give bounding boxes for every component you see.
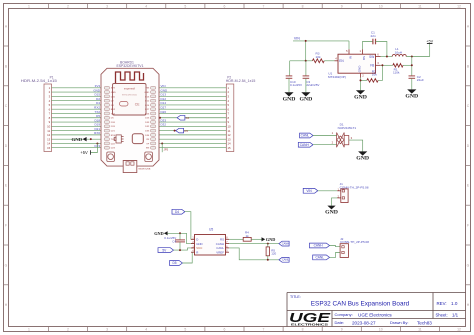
esp32 chip on board [132,134,143,144]
svg-text:C: C [5,104,8,108]
svg-text:CANL: CANL [315,256,324,260]
wire P1 pin 3 to board [52,95,102,97]
svg-text:11: 11 [418,328,422,332]
svg-text:ESP32DEVKITV1: ESP32DEVKITV1 [117,64,144,68]
junction R2/GND [360,79,362,81]
svg-text:1.0: 1.0 [451,301,458,306]
wire R4 to ground [251,238,261,240]
svg-text:R: R [196,250,198,254]
svg-text:VIN: VIN [294,37,300,41]
svg-text:5: 5 [184,5,186,9]
wire board to P2 pin 9 [159,121,226,123]
stub tap on VP row [161,142,163,144]
svg-text:Company:: Company: [335,312,353,317]
svg-text:A: A [5,25,8,29]
wire board to P2 pin 13 [159,138,226,140]
wire board to P2 pin 15 [159,147,226,149]
ground under C3 [301,92,310,96]
wire RS row to R4 [229,238,243,240]
svg-text:5: 5 [184,328,186,332]
svg-text:GND: GND [72,137,83,142]
wire VIN rail [293,40,349,42]
svg-text:FB: FB [370,64,374,68]
svg-text:H: H [5,303,8,307]
svg-text:GND: GND [405,95,418,100]
connector J1 CONN-TH_2P-P5.08 [337,182,368,203]
svg-text:D5: D5 [184,129,188,133]
net flag D5 on wire row 11 [174,128,189,133]
wire P1 pin 8 to board [52,117,102,119]
wire output node down to C2 [411,57,413,76]
wire R3 to EN pin [324,60,334,62]
net flag VIN [303,188,318,193]
wire C10 branch [289,61,291,76]
wire P1 pin 5 to board [52,104,102,106]
wire P1 pin 7 to board [52,112,102,114]
svg-text:GND: GND [356,157,369,162]
capacitor C10 0.1u/25V [286,76,302,92]
svg-text:10uH: 10uH [395,51,402,55]
svg-text:6: 6 [377,52,379,56]
svg-text:VREF: VREF [216,250,224,254]
wire board to P2 pin 5 [159,104,226,106]
svg-text:MICROUSB: MICROUSB [139,169,151,171]
en button [145,152,153,162]
wire J1 pin2 to ground [332,198,338,206]
svg-text:B: B [5,64,8,68]
svg-text:10: 10 [379,5,383,9]
svg-text:MT2492(OP): MT2492(OP) [328,75,346,79]
svg-text:1k: 1k [246,234,250,238]
net flag D4 (to U5) [172,209,185,214]
svg-text:ESP32-WROOM-32: ESP32-WROOM-32 [122,95,137,97]
svg-text:G: G [5,263,8,267]
svg-text:F: F [467,224,469,228]
net flag D5 (to U5) [170,261,183,266]
wire board to P2 pin 2 [159,91,226,93]
svg-text:GND: GND [283,97,296,102]
svg-text:2: 2 [332,140,334,144]
svg-text:6: 6 [223,328,225,332]
connector J2 CONN-TH_2P-P5.08 [340,237,369,258]
wire rail branch down to EN row [305,41,307,61]
junction +5V node [411,56,413,58]
svg-text:GND: GND [300,97,313,102]
svg-text:0.1u/25V: 0.1u/25V [290,83,302,87]
net flag CANL (at U5) [279,257,289,262]
wire board to P2 pin 4 [159,100,226,102]
svg-text:CE: CE [135,103,140,107]
wire GND to U5 [168,233,195,243]
RF shield [113,84,147,116]
svg-text:SW: SW [369,55,374,59]
svg-text:D4: D4 [186,116,190,120]
wire P1 pin 12 to board [52,134,102,136]
wire board to P2 pin 11 [159,130,226,132]
svg-text:REV:: REV: [437,301,447,306]
wire P1 pin 4 to board [52,100,102,102]
svg-text:15: 15 [228,146,232,150]
junction on VIN rail [305,40,307,42]
svg-text:B: B [467,64,470,68]
svg-text:ELECTRONICS: ELECTRONICS [291,323,328,327]
ground flag right of R4 [262,237,276,242]
svg-text:EN: EN [146,148,149,150]
net flag 5V [158,248,174,253]
svg-text:GND: GND [354,95,367,100]
svg-text:D: D [467,144,470,148]
svg-text:9: 9 [341,5,343,9]
svg-text:VIN: VIN [306,189,312,193]
svg-text:espressif: espressif [124,86,135,90]
wire P1 pin 6 to board [52,108,102,110]
wire U1 GND pin down [360,78,362,91]
svg-text:VN: VN [146,139,149,141]
svg-text:22n: 22n [371,34,376,38]
svg-text:E: E [5,184,8,188]
svg-text:12: 12 [457,328,461,332]
antenna meander [116,72,144,84]
wire SW row [381,56,393,58]
net flag CANL [300,133,313,138]
wire P1 pin 1 to board [52,87,102,89]
usb-uart chip on board [114,135,123,143]
svg-text:8: 8 [302,328,304,332]
svg-text:D26: D26 [161,110,167,114]
svg-text:2: 2 [362,74,364,78]
ground under U1 [356,90,365,94]
svg-text:IN: IN [349,56,353,59]
connector P1 HDR-M-2.54_1x15 (left header) [21,76,57,152]
svg-text:P1: P1 [50,76,54,80]
wire C3 branch [305,61,307,76]
svg-text:7: 7 [263,328,265,332]
transceiver U5 (CAN) [191,228,229,255]
svg-text:10: 10 [379,328,383,332]
svg-text:Sheet:: Sheet: [436,313,448,318]
wire CANL to J2 [330,253,341,258]
junction GND/C4 [179,232,181,234]
svg-text:+5V: +5V [80,150,88,155]
svg-text:VIN: VIN [146,88,150,90]
wire P1 pin 13 to board [52,138,102,140]
svg-text:3: 3 [351,136,353,140]
wire R1 to output node [403,64,412,66]
wire board to P2 pin 1 [159,87,226,89]
wire 5V to U5 VCC [174,248,195,250]
boot button [107,152,115,162]
wire D1 to ground [349,140,363,151]
resistor R3 10k [312,51,324,62]
wire D5 to U5 pin R [182,252,194,263]
svg-text:D5: D5 [173,261,177,265]
connector P2 HDR-M-2.54_1x15 (right header) [226,76,256,152]
wire VIN flag to J1 [318,190,338,192]
svg-text:11: 11 [418,5,422,9]
svg-text:UGE Electronics: UGE Electronics [358,312,392,317]
svg-text:GND: GND [111,92,116,94]
micro-usb connector [123,161,137,173]
svg-text:H: H [467,303,470,307]
svg-text:D4: D4 [175,210,179,214]
capacitor C3 22uF/25V [303,76,320,92]
junction SW / C1 [386,56,388,58]
svg-text:3: 3 [377,61,379,65]
svg-text:A: A [467,25,470,29]
wire CANL row [229,248,279,260]
wire P1 pin 11 to board [52,130,102,132]
svg-text:NUP2105LT1: NUP2105LT1 [338,126,357,130]
svg-text:2: 2 [67,5,69,9]
svg-text:F: F [5,224,7,228]
wire CANH to J2 [330,246,341,247]
wire P1 pin 9 to board [52,121,102,123]
capacitor C2 22uF [409,75,424,90]
svg-text:GND: GND [144,92,149,94]
svg-text:1: 1 [28,5,30,9]
ground at J1 [327,206,335,210]
svg-text:CANH: CANH [300,143,310,147]
svg-text:D: D [5,144,8,148]
svg-text:1: 1 [359,49,361,53]
wire P1 pin 2 to board [52,91,102,93]
svg-text:4: 4 [335,57,337,61]
svg-text:CANL: CANL [282,258,289,262]
svg-text:Date:: Date: [335,320,345,325]
wire EN row left segment [290,60,313,62]
junction CANL/R5 [267,259,269,261]
wire board to P2 pin 12 [159,134,226,136]
capacitor C4 0.1u/25V [164,233,185,250]
wire L1 to +5V node [406,56,429,58]
wire P1 pin 14 to board [52,142,102,144]
wire board to P2 pin 10 [159,125,226,127]
svg-text:GND: GND [266,237,276,242]
svg-text:E: E [467,184,470,188]
svg-text:CANH: CANH [282,242,289,246]
svg-text:U5: U5 [209,228,213,232]
diode D1 NUP2105LT1 (dual TVS) [332,123,357,148]
inductor L1 10uH [392,47,406,56]
svg-text:HDR-M-2.54_1x15: HDR-M-2.54_1x15 [226,79,256,83]
svg-text:EN: EN [339,59,344,63]
title block [287,293,466,327]
svg-text:3: 3 [106,328,108,332]
svg-text:15: 15 [47,146,51,150]
+5V power flag [426,39,433,56]
wire D4 to U5 pin D [185,212,195,240]
svg-text:Tech83: Tech83 [417,320,432,325]
junction 5V/C4 [179,249,181,251]
svg-text:GND: GND [325,210,338,215]
net flag CANH (at U5) [279,241,289,246]
svg-text:12: 12 [457,5,461,9]
svg-text:D32: D32 [161,123,167,127]
svg-text:2: 2 [67,328,69,332]
board BOARD1 ESP32DEVKITV1 (ESP32 module) [101,60,159,172]
svg-text:+5V: +5V [426,39,433,43]
svg-text:C: C [467,104,470,108]
svg-text:ESP32 CAN Bus Expansion Board: ESP32 CAN Bus Expansion Board [311,301,410,308]
+5V power flag on P1 pin 14 wire [80,142,98,155]
svg-text:TITLE:: TITLE: [290,295,301,299]
svg-text:G: G [467,263,470,267]
svg-text:1: 1 [28,328,30,332]
svg-text:4: 4 [145,328,147,332]
svg-text:10k: 10k [372,73,377,77]
board pin names [111,88,150,150]
resistor R4 1k [243,231,251,242]
svg-text:JP5: JP5 [164,148,169,152]
svg-text:BS: BS [362,56,366,60]
wire board to P2 pin 14 [159,142,226,144]
svg-text:1/1: 1/1 [452,313,459,318]
op-amp U1 MT2492(OP) (buck regulator) [328,49,381,79]
svg-text:110k: 110k [393,71,400,75]
svg-text:7: 7 [263,5,265,9]
svg-text:9: 9 [341,328,343,332]
junction FB/R1 node [411,64,413,66]
junction EN row / C3 branch [305,60,307,62]
wire CANL to D1 [313,135,337,137]
svg-text:2023-08-27: 2023-08-27 [352,320,376,325]
svg-text:GND: GND [358,65,362,73]
net flag D4 on wire row 8 [177,115,190,120]
resistor R1 110k [393,64,403,75]
svg-text:6: 6 [223,5,225,9]
svg-text:22uF: 22uF [417,78,424,82]
junction on D4 flag wire [159,117,161,119]
wire CANH row [229,243,279,245]
svg-text:10k: 10k [316,55,321,59]
svg-text:3: 3 [106,5,108,9]
svg-text:CANH: CANH [314,244,324,248]
wire P1 pin 15 to board [52,147,102,149]
wire CANH to D1 [313,144,337,146]
svg-text:1: 1 [332,131,334,135]
net flag CANH (connector) [310,243,330,248]
wire board to P2 pin 7 [159,112,226,114]
ground at D1 [358,151,367,155]
svg-text:C4: C4 [172,239,176,243]
resistor R2 10k (FB divider) [361,64,384,82]
wire board to P2 pin 8 [159,117,226,119]
ground under C10 [284,92,293,96]
ground flag on P1 pin 13 wire [72,137,92,142]
svg-text:8: 8 [302,5,304,9]
net flag CANL (connector) [313,255,330,260]
net flag CANH [298,142,313,147]
board pads [104,86,156,149]
wire rail to IN pin [348,41,350,49]
svg-text:120: 120 [271,252,276,256]
svg-text:4: 4 [145,5,147,9]
wire FB row [381,64,393,66]
resistor R5 120 [266,244,276,260]
junction CANH/R5 [267,243,269,245]
svg-text:5: 5 [346,49,348,53]
ground flag at U5 (left) [154,231,167,236]
svg-text:Drawn By:: Drawn By: [390,320,408,325]
svg-text:RX0: RX0 [94,131,100,135]
capacitor C1 22n (bootstrap) [363,31,387,57]
ground under C2 [407,89,416,93]
wire P1 pin 10 to board [52,125,102,127]
svg-text:22uF/25V: 22uF/25V [306,83,319,87]
wire board to P2 pin 6 [159,108,226,110]
wire board to P2 pin 3 [159,95,226,97]
svg-text:GND: GND [154,231,164,236]
svg-text:CANL: CANL [301,134,310,138]
